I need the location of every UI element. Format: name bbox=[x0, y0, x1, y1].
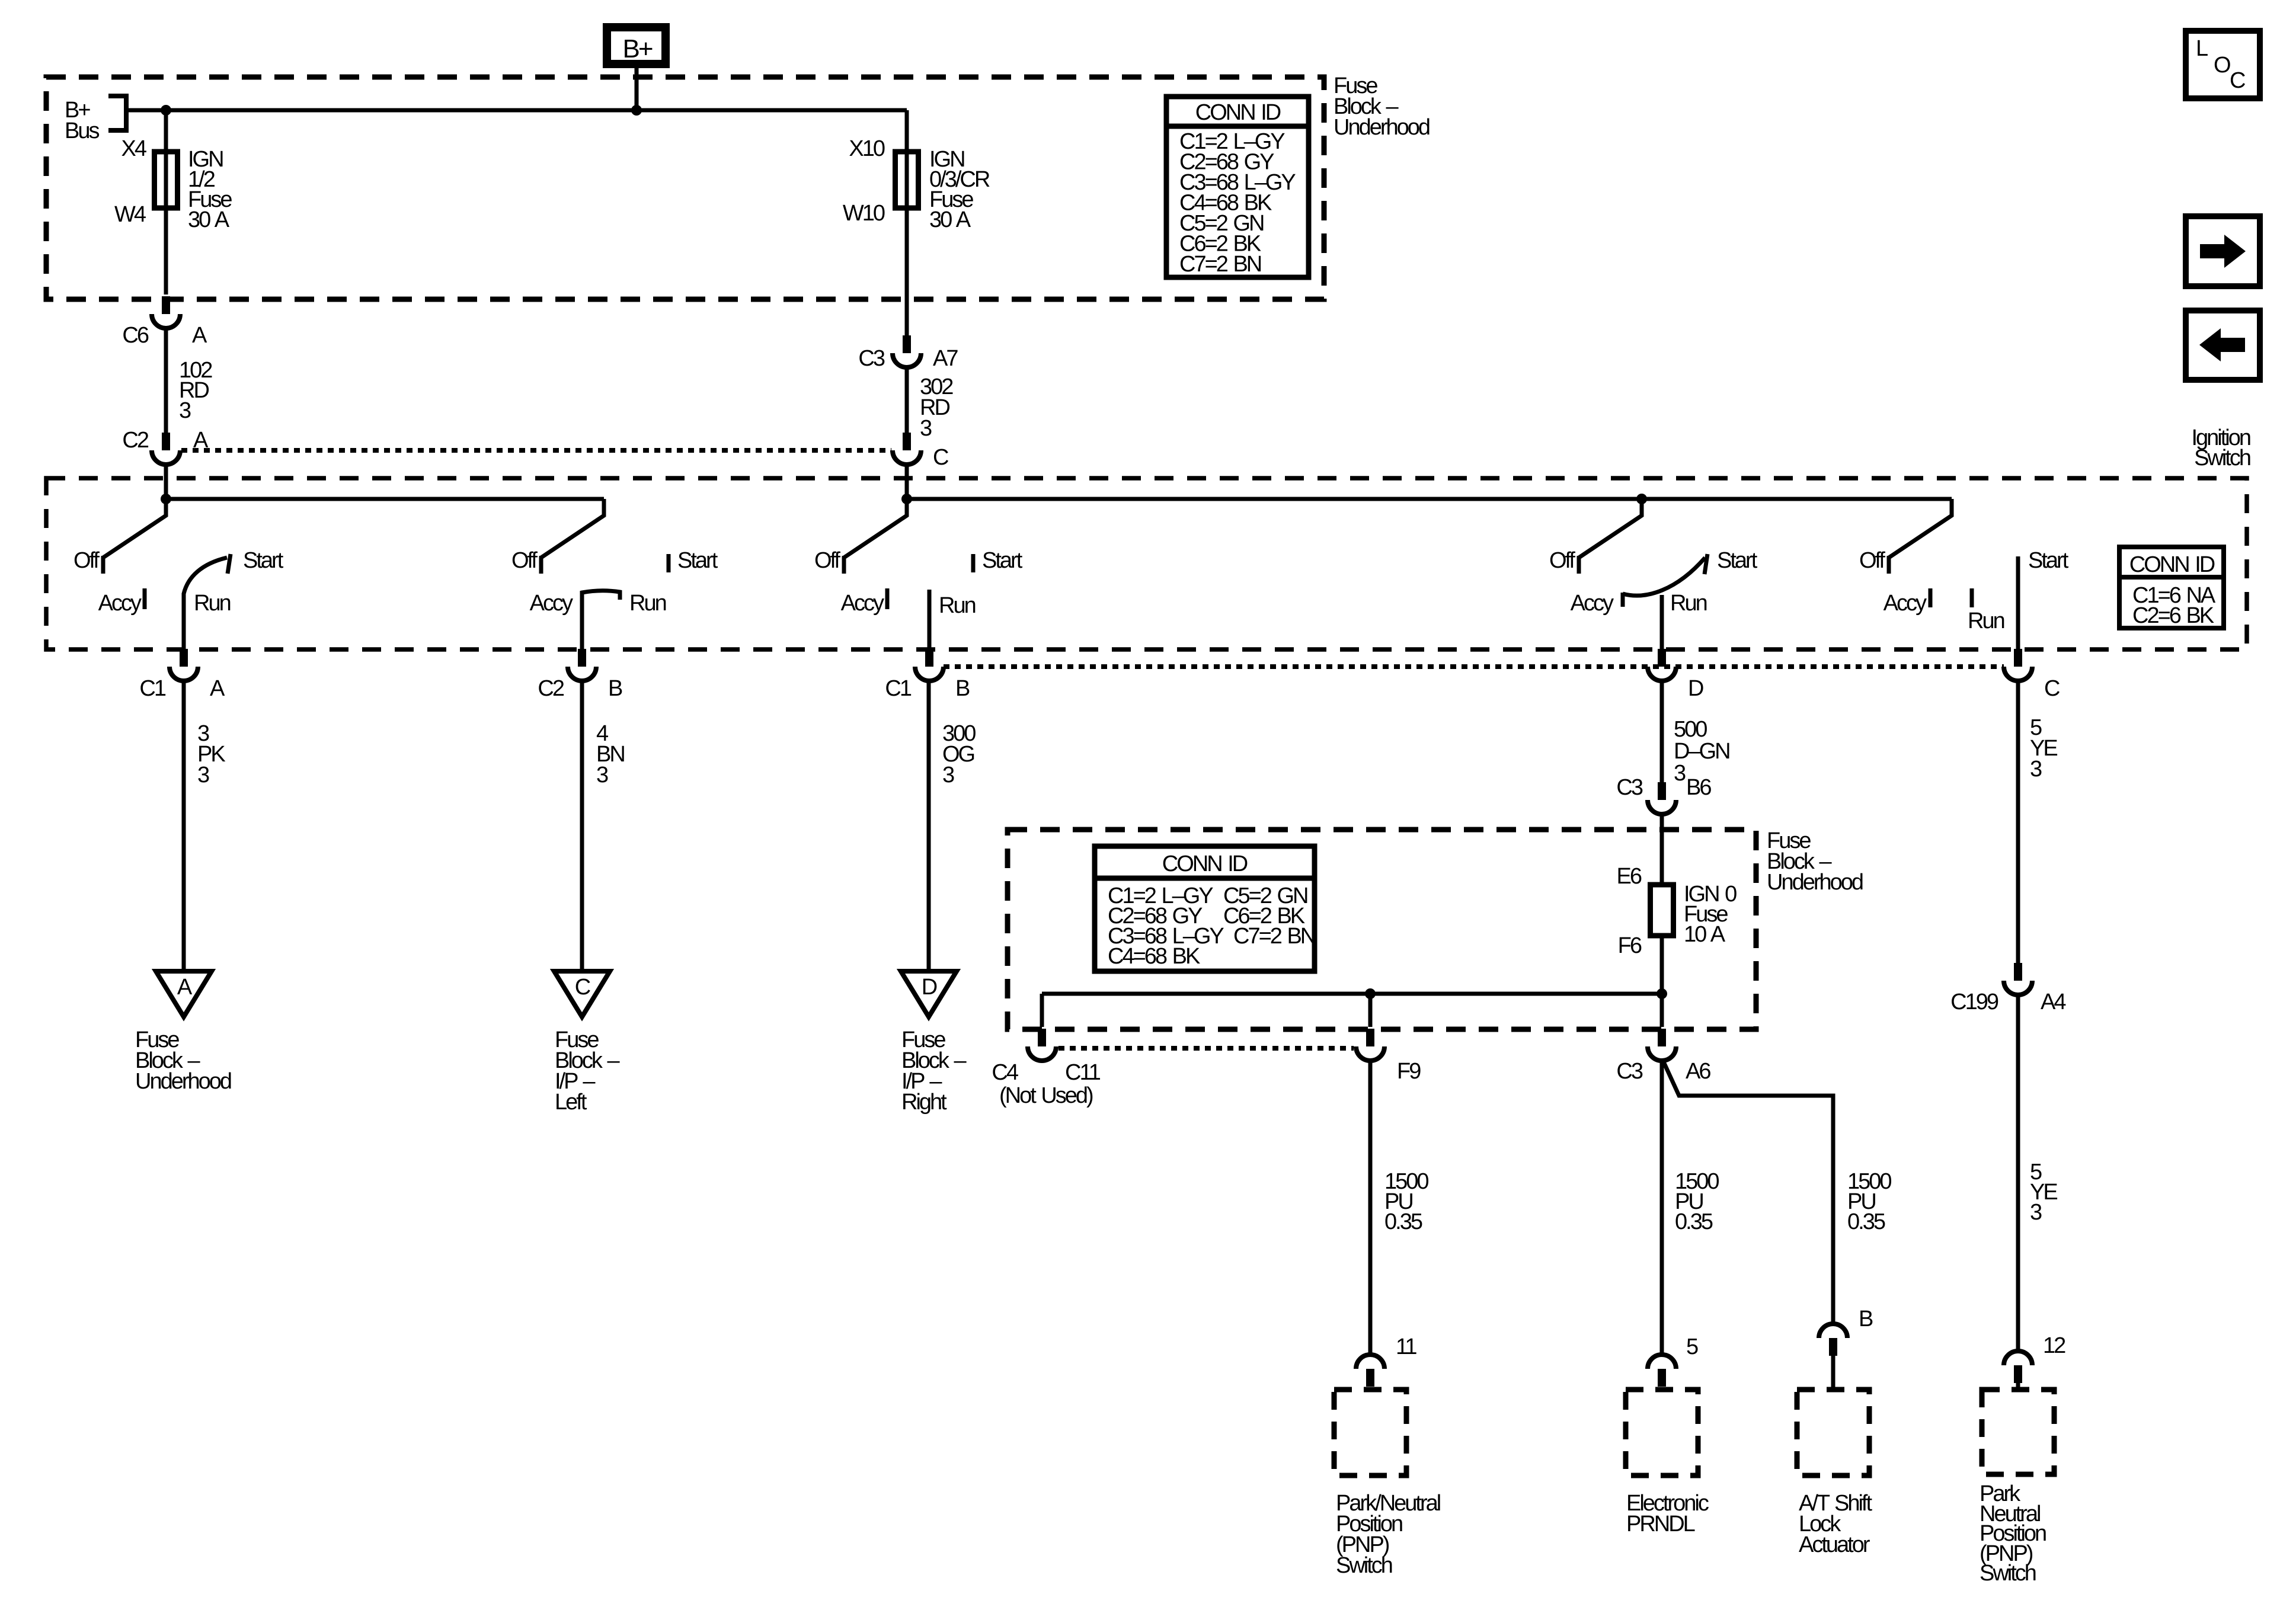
svg-text:C1: C1 bbox=[139, 676, 165, 701]
svg-text:Run: Run bbox=[1670, 591, 1707, 616]
svg-text:C7=2 BN: C7=2 BN bbox=[1233, 924, 1315, 949]
svg-text:3: 3 bbox=[920, 416, 932, 441]
svg-text:3: 3 bbox=[2030, 1200, 2042, 1225]
svg-text:0.35: 0.35 bbox=[1384, 1209, 1422, 1234]
svg-text:D–GN: D–GN bbox=[1674, 739, 1729, 764]
svg-text:C2: C2 bbox=[122, 428, 148, 453]
svg-text:C2: C2 bbox=[538, 676, 564, 701]
svg-text:Accy: Accy bbox=[1571, 591, 1614, 616]
svg-text:Start: Start bbox=[243, 548, 284, 573]
svg-text:10 A: 10 A bbox=[1684, 922, 1726, 947]
svg-text:L: L bbox=[2196, 36, 2208, 61]
svg-text:Accy: Accy bbox=[1884, 591, 1927, 616]
svg-text:B: B bbox=[608, 676, 622, 701]
svg-text:E6: E6 bbox=[1617, 864, 1642, 889]
svg-text:O: O bbox=[2214, 53, 2230, 78]
svg-text:Left: Left bbox=[555, 1090, 587, 1115]
svg-text:Start: Start bbox=[1717, 548, 1758, 573]
svg-text:CONN ID: CONN ID bbox=[1195, 100, 1281, 125]
svg-text:0.35: 0.35 bbox=[1847, 1209, 1885, 1234]
svg-text:C2=6 BK: C2=6 BK bbox=[2132, 603, 2214, 628]
svg-text:11: 11 bbox=[1396, 1334, 1416, 1359]
svg-text:Start: Start bbox=[2028, 548, 2069, 573]
svg-text:0.35: 0.35 bbox=[1675, 1209, 1713, 1234]
svg-text:3: 3 bbox=[942, 763, 954, 788]
svg-text:C3: C3 bbox=[1616, 775, 1642, 800]
svg-text:B: B bbox=[955, 676, 970, 701]
svg-text:Bus: Bus bbox=[65, 119, 99, 143]
svg-text:C6: C6 bbox=[122, 323, 148, 348]
svg-text:CONN ID: CONN ID bbox=[2129, 552, 2215, 577]
svg-text:PRNDL: PRNDL bbox=[1626, 1512, 1695, 1537]
svg-text:B6: B6 bbox=[1686, 775, 1711, 800]
svg-text:A4: A4 bbox=[2041, 990, 2066, 1014]
svg-text:Switch: Switch bbox=[1336, 1553, 1392, 1578]
svg-text:F9: F9 bbox=[1397, 1059, 1421, 1084]
svg-text:Accy: Accy bbox=[841, 591, 884, 616]
svg-text:C3: C3 bbox=[1616, 1059, 1642, 1084]
svg-text:3: 3 bbox=[2030, 757, 2042, 782]
svg-text:Off: Off bbox=[1549, 548, 1575, 573]
svg-text:C11: C11 bbox=[1065, 1060, 1101, 1085]
svg-text:C3: C3 bbox=[858, 346, 884, 371]
svg-text:B+: B+ bbox=[622, 34, 652, 63]
svg-text:Switch: Switch bbox=[2194, 446, 2250, 470]
svg-text:Right: Right bbox=[901, 1090, 947, 1115]
svg-text:5: 5 bbox=[1686, 1334, 1698, 1359]
svg-text:500: 500 bbox=[1674, 717, 1707, 742]
svg-text:C: C bbox=[2044, 676, 2060, 701]
svg-text:Run: Run bbox=[629, 591, 666, 616]
svg-text:Start: Start bbox=[982, 548, 1023, 573]
svg-text:C4: C4 bbox=[992, 1060, 1018, 1085]
svg-text:W4: W4 bbox=[114, 202, 146, 227]
svg-text:Off: Off bbox=[73, 548, 100, 573]
svg-text:C: C bbox=[575, 975, 590, 1000]
svg-text:B: B bbox=[1859, 1307, 1873, 1331]
svg-text:C199: C199 bbox=[1950, 990, 1998, 1014]
svg-text:Underhood: Underhood bbox=[1767, 870, 1863, 895]
svg-text:D: D bbox=[1688, 676, 1703, 701]
svg-text:A: A bbox=[177, 975, 193, 1000]
svg-text:C4=68 BK: C4=68 BK bbox=[1108, 944, 1200, 969]
svg-text:Run: Run bbox=[1968, 609, 2004, 633]
svg-text:3: 3 bbox=[596, 763, 608, 788]
svg-text:Off: Off bbox=[1859, 548, 1885, 573]
svg-text:Actuator: Actuator bbox=[1799, 1532, 1870, 1557]
svg-text:3: 3 bbox=[1674, 761, 1686, 786]
svg-text:12: 12 bbox=[2043, 1333, 2065, 1358]
svg-text:A7: A7 bbox=[933, 346, 958, 371]
svg-text:Start: Start bbox=[677, 548, 718, 573]
svg-text:X10: X10 bbox=[849, 136, 884, 161]
svg-text:CONN ID: CONN ID bbox=[1162, 852, 1248, 876]
svg-text:30 A: 30 A bbox=[929, 207, 971, 232]
svg-text:A: A bbox=[192, 323, 207, 348]
svg-text:30 A: 30 A bbox=[188, 207, 230, 232]
svg-text:(Not Used): (Not Used) bbox=[999, 1083, 1093, 1108]
svg-text:Off: Off bbox=[814, 548, 840, 573]
svg-text:A6: A6 bbox=[1686, 1059, 1710, 1084]
svg-text:Underhood: Underhood bbox=[1334, 115, 1430, 140]
svg-text:Off: Off bbox=[511, 548, 538, 573]
svg-text:X4: X4 bbox=[121, 136, 147, 161]
svg-text:Run: Run bbox=[194, 591, 231, 616]
svg-text:Accy: Accy bbox=[98, 591, 142, 616]
svg-text:C: C bbox=[933, 445, 948, 470]
svg-text:Underhood: Underhood bbox=[135, 1069, 231, 1094]
svg-text:F6: F6 bbox=[1618, 933, 1642, 958]
svg-text:Accy: Accy bbox=[530, 591, 573, 616]
svg-text:3: 3 bbox=[179, 398, 191, 423]
svg-text:C: C bbox=[2230, 68, 2245, 93]
svg-text:Switch: Switch bbox=[1980, 1561, 2036, 1586]
svg-text:A: A bbox=[210, 676, 225, 701]
svg-text:D: D bbox=[922, 975, 937, 1000]
svg-text:3: 3 bbox=[197, 763, 209, 788]
svg-text:C1: C1 bbox=[885, 676, 911, 701]
svg-text:W10: W10 bbox=[843, 201, 885, 226]
svg-text:C7=2 BN: C7=2 BN bbox=[1179, 252, 1261, 277]
svg-text:Run: Run bbox=[939, 593, 976, 618]
